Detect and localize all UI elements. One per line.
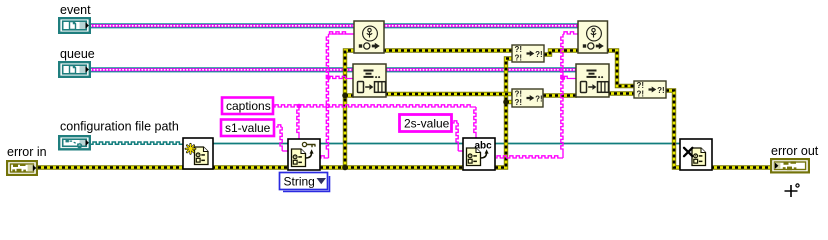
wire: merge C out down to close config node bbox=[666, 91, 682, 168]
svg-text:?!: ?! bbox=[515, 53, 523, 62]
junction: readkey2 string split bbox=[561, 76, 566, 81]
control: queue refnum bbox=[59, 62, 90, 77]
svg-text:error out: error out bbox=[771, 144, 819, 158]
wire: path zigzag from configuration file path control to open config node bbox=[91, 142, 184, 144]
constant: captions string bbox=[222, 98, 273, 115]
svg-text:?!: ?! bbox=[535, 95, 543, 104]
wire: 2s-value to read key 2 bbox=[452, 121, 464, 151]
node: merge errors A bbox=[512, 45, 544, 62]
wire: main error chain bottom row bbox=[38, 59, 512, 168]
wire: event refnum control to generate-event node 1 bbox=[91, 23, 355, 28]
mouse cursor crosshair bbox=[785, 184, 800, 197]
svg-text:?!: ?! bbox=[535, 50, 543, 59]
wire: merge B out to enqueue node2 bbox=[543, 93, 577, 97]
svg-text:?!: ?! bbox=[657, 86, 665, 95]
wire: captions string wire bbox=[273, 105, 476, 140]
svg-text:abc: abc bbox=[475, 141, 493, 152]
node: enqueue element 1 bbox=[353, 64, 386, 97]
constant: String ring with dropdown bbox=[280, 173, 330, 192]
wire: event node1 error out to merge A bbox=[383, 48, 512, 52]
control: event refnum bbox=[59, 18, 90, 33]
svg-text:?!: ?! bbox=[515, 98, 523, 107]
junction: captions split bbox=[297, 104, 302, 109]
constant: 2s-value string bbox=[400, 115, 452, 132]
wire: queue refnum node1 to node2 bbox=[385, 67, 577, 72]
svg-text:String: String bbox=[284, 175, 315, 189]
svg-text:event: event bbox=[60, 3, 91, 17]
wire: close config error out to error out indicator bbox=[711, 165, 771, 169]
junction dots on error wires bbox=[342, 93, 348, 99]
node: generate user event 2 bbox=[578, 21, 608, 53]
wire: enqueue node1 error out to merge B bbox=[385, 92, 512, 96]
wire: read key1 string out up to event node1 and enqueue node1 bbox=[320, 32, 355, 158]
svg-text:?!: ?! bbox=[637, 89, 645, 98]
wire: error branch up at x=345 to event node1 and enqueue node1 bbox=[345, 51, 355, 168]
svg-text:s1-value: s1-value bbox=[225, 121, 271, 135]
node: read key VI 1 bbox=[288, 139, 320, 170]
node: open config data VI bbox=[183, 138, 213, 169]
svg-text:2s-value: 2s-value bbox=[404, 117, 450, 131]
node: generate user event 1 bbox=[354, 21, 384, 53]
wire: event node2 error out down to merge C bbox=[606, 51, 634, 87]
node: merge errors B bbox=[512, 89, 543, 107]
svg-text:captions: captions bbox=[226, 99, 271, 113]
wire: merge A out to event node2 bbox=[544, 51, 579, 55]
svg-text:queue: queue bbox=[60, 47, 95, 61]
node: enqueue element 2 bbox=[576, 64, 609, 97]
junction: readkey1 string split bbox=[326, 75, 331, 80]
node: close config data VI bbox=[680, 139, 712, 170]
node: read key VI 2 (abc) bbox=[463, 138, 495, 170]
wire: event refnum node1 to node2 bbox=[383, 23, 579, 28]
wire: enqueue node2 error out to merge C bbox=[608, 91, 634, 95]
svg-text:configuration file path: configuration file path bbox=[60, 120, 179, 134]
node: merge errors C bbox=[634, 81, 666, 98]
svg-text:error in: error in bbox=[7, 145, 47, 159]
indicator: error out cluster bbox=[771, 159, 809, 172]
wire: error branch from x506 to merge B lower input bbox=[506, 100, 512, 104]
control: configuration file path bbox=[59, 136, 90, 149]
wire: config refnum teal line open config to close config bbox=[212, 143, 681, 145]
constant: s1-value string bbox=[221, 120, 274, 137]
wire: s1-value to read key 1 bbox=[276, 125, 289, 151]
wire: read key2 string out up to event node2 and enqueue node2 bbox=[496, 32, 578, 158]
control: error in cluster bbox=[7, 161, 37, 175]
wire: queue refnum control to enqueue node 1 bbox=[91, 67, 354, 72]
